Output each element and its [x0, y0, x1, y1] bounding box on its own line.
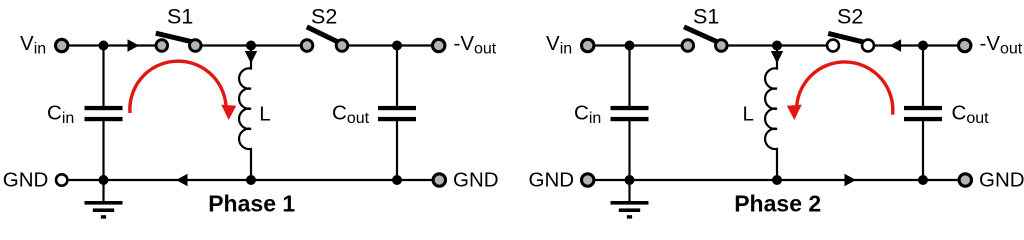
ground symbol (phase 1) [102, 180, 104, 202]
svg-text:-Vout: -Vout [980, 32, 1023, 58]
capacitor Cin (phase 2) [628, 46, 630, 107]
current arrow on bottom rail (phase 2) [845, 174, 857, 186]
svg-text:GND: GND [529, 169, 575, 192]
terminal GND right (phase 1) [433, 174, 445, 186]
node inductor-bottom junction (phase 1) [246, 175, 256, 185]
node inductor-bottom junction (phase 2) [772, 175, 782, 185]
svg-text:L: L [259, 103, 270, 126]
svg-text:GND: GND [979, 169, 1024, 192]
svg-text:Phase 2: Phase 2 [734, 191, 821, 217]
terminal -Vout (phase 2) [959, 39, 971, 51]
red current-loop arrow (phase 1) [130, 61, 226, 113]
svg-text:Phase 1: Phase 1 [208, 191, 295, 217]
wire Vin to S1 (phase 1) [69, 44, 162, 46]
switch S2 open (phase 1) [307, 27, 339, 43]
inductor L (phase 2) [765, 46, 777, 181]
wire S1 to S2 (phase 1) [201, 44, 307, 46]
node inductor-top junction (phase 1) [246, 41, 256, 51]
svg-text:GND: GND [3, 169, 49, 192]
current arrow on bottom rail (phase 1) [176, 174, 188, 186]
current arrow into S1 (phase 1) [128, 39, 140, 51]
node Cin-top junction (phase 1) [99, 41, 109, 51]
svg-text:GND: GND [453, 169, 499, 192]
svg-text:S1: S1 [167, 5, 193, 29]
wire S1 to S2 (phase 2) [727, 44, 833, 46]
node Cin-top junction (phase 2) [625, 41, 635, 51]
terminal GND left (phase 1) [56, 174, 67, 185]
current arrow from -Vout (phase 2) [890, 39, 902, 51]
node inductor-top junction (phase 2) [772, 41, 782, 51]
svg-text:S2: S2 [837, 5, 863, 29]
svg-text:Vin: Vin [20, 32, 46, 58]
switch S2 closed (phase 2) [828, 33, 864, 42]
node Cin-bottom junction (phase 1) [99, 175, 109, 185]
current arrow into L (phase 1) [245, 51, 257, 64]
svg-text:Cin: Cin [47, 102, 74, 128]
svg-text:Vin: Vin [546, 32, 572, 58]
node Cout-top junction (phase 2) [918, 41, 928, 51]
terminal -Vout (phase 1) [433, 39, 445, 51]
terminal Vin (phase 2) [582, 39, 594, 51]
capacitor Cout (phase 2) [922, 46, 924, 107]
terminal Vin (phase 1) [56, 39, 68, 51]
current arrow into L (phase 2) [771, 51, 783, 64]
wire Vin to S1 (phase 2) [595, 44, 688, 46]
node Cin-bottom junction (phase 2) [625, 175, 635, 185]
node Cout-top junction (phase 1) [392, 41, 402, 51]
ground symbol (phase 2) [628, 180, 630, 202]
svg-text:S2: S2 [311, 5, 337, 29]
switch S1 open (phase 2) [684, 27, 718, 42]
terminal GND left (phase 2) [582, 174, 594, 186]
node Cout-bottom junction (phase 1) [392, 175, 402, 185]
svg-text:S1: S1 [693, 5, 719, 29]
svg-text:-Vout: -Vout [454, 32, 497, 58]
svg-text:Cout: Cout [952, 102, 990, 128]
terminal GND right (phase 2) [959, 174, 971, 186]
svg-text:Cout: Cout [332, 102, 370, 128]
wire S2 to -Vout (phase 2) [874, 44, 958, 46]
node Cout-bottom junction (phase 2) [918, 175, 928, 185]
wire bottom rail (phase 2) [595, 179, 959, 181]
red current-loop arrow (phase 2) [797, 62, 893, 115]
inductor L (phase 1) [239, 46, 251, 181]
capacitor Cout (phase 1) [396, 46, 398, 107]
switch S1 closed (phase 1) [156, 33, 193, 42]
svg-text:L: L [743, 103, 754, 126]
wire S2 to -Vout (phase 1) [348, 44, 432, 46]
wire bottom rail (phase 1) [69, 179, 433, 181]
svg-text:Cin: Cin [574, 102, 601, 128]
capacitor Cin (phase 1) [102, 46, 104, 107]
